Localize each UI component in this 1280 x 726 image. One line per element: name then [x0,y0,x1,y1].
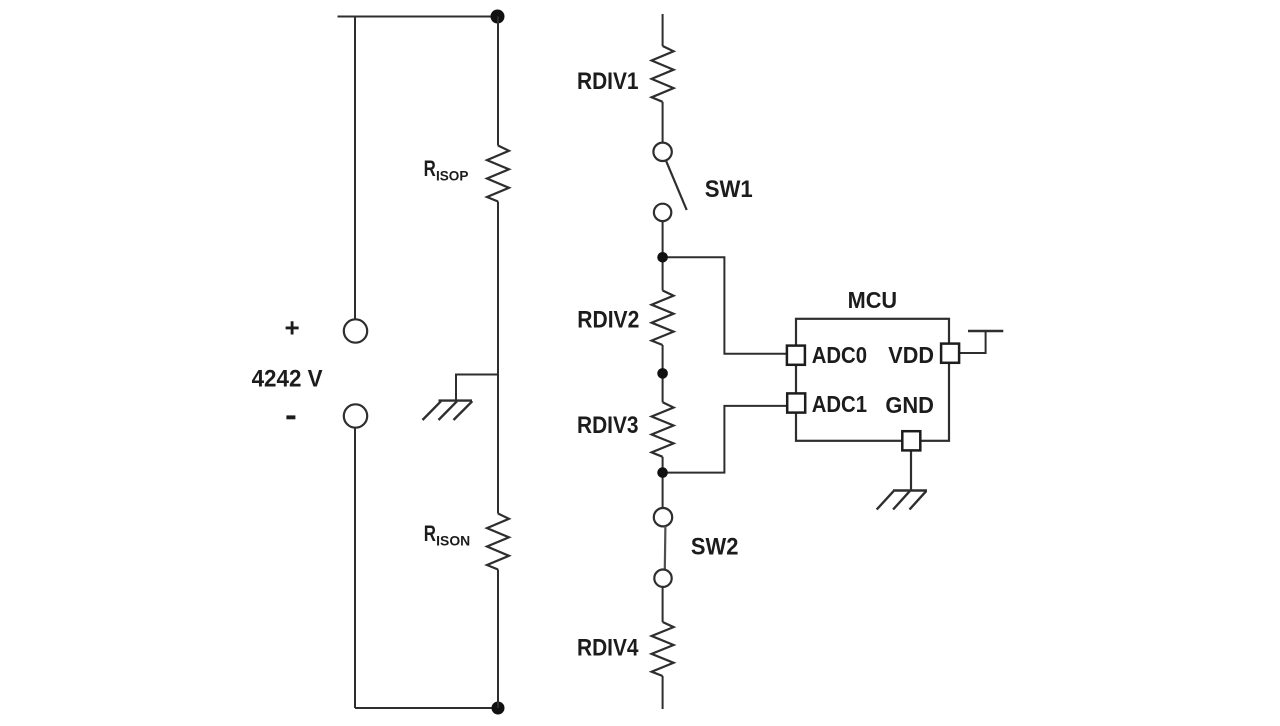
svg-text:RDIV3: RDIV3 [577,412,639,439]
svg-text:VDD: VDD [888,342,934,368]
svg-text:SW2: SW2 [691,534,739,561]
svg-text:ISON: ISON [436,534,470,549]
svg-text:RDIV4: RDIV4 [577,635,639,662]
svg-text:+: + [285,313,300,343]
svg-text:RDIV2: RDIV2 [577,307,639,334]
svg-text:R: R [424,521,436,546]
svg-text:4242 V: 4242 V [252,366,324,393]
svg-text:RDIV1: RDIV1 [577,68,639,95]
svg-text:ISOP: ISOP [436,168,468,183]
svg-text:ADC0: ADC0 [812,342,867,368]
svg-text:MCU: MCU [848,287,898,313]
svg-text:SW1: SW1 [705,176,753,203]
svg-text:R: R [424,156,436,181]
svg-text:ADC1: ADC1 [812,391,867,417]
svg-text:GND: GND [885,392,934,418]
